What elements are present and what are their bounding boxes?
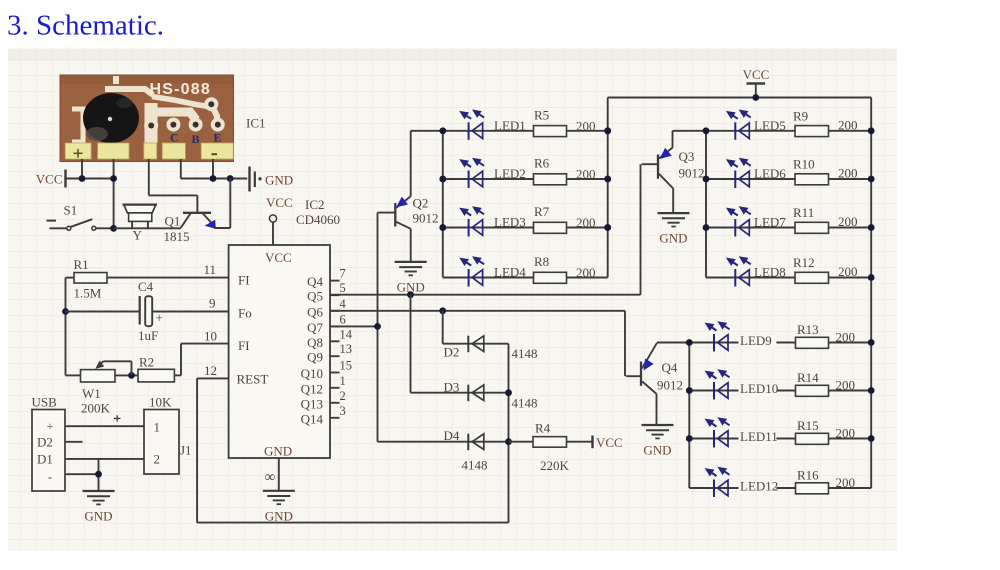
svg-text:4: 4 [340, 297, 347, 311]
svg-text:D2: D2 [37, 435, 53, 450]
svg-text:4148: 4148 [512, 346, 538, 361]
svg-text:LED5: LED5 [754, 118, 786, 133]
svg-text:3. Schematic.: 3. Schematic. [7, 10, 164, 42]
svg-text:1.5M: 1.5M [74, 286, 102, 301]
svg-text:GND: GND [265, 173, 293, 188]
svg-text:FI: FI [238, 338, 250, 353]
svg-text:Q3: Q3 [679, 149, 695, 164]
svg-text:9012: 9012 [679, 166, 705, 181]
svg-text:200: 200 [836, 378, 856, 393]
svg-text:10: 10 [204, 329, 217, 344]
svg-text:VCC: VCC [265, 250, 292, 265]
svg-text:R5: R5 [534, 107, 549, 122]
svg-text:LED7: LED7 [754, 215, 786, 230]
svg-text:11: 11 [203, 262, 216, 277]
svg-text:R2: R2 [139, 355, 154, 370]
svg-text:LED2: LED2 [494, 166, 526, 181]
svg-text:2: 2 [340, 389, 346, 403]
svg-text:R13: R13 [797, 322, 819, 337]
svg-text:200: 200 [576, 215, 596, 230]
svg-text:D1: D1 [37, 452, 53, 467]
svg-text:R16: R16 [797, 468, 819, 483]
svg-text:Q9: Q9 [307, 350, 323, 365]
svg-text:Q4: Q4 [662, 360, 678, 375]
svg-text:R6: R6 [534, 156, 550, 171]
svg-text:Q12: Q12 [301, 381, 323, 396]
svg-text:200: 200 [576, 118, 596, 133]
svg-text:9: 9 [209, 296, 216, 311]
svg-text:R10: R10 [793, 157, 815, 172]
svg-text:Q6: Q6 [307, 304, 323, 319]
svg-text:5: 5 [340, 281, 346, 295]
svg-text:Y: Y [133, 228, 143, 243]
svg-text:D3: D3 [444, 380, 460, 395]
svg-text:+: + [47, 419, 54, 433]
svg-text:IC2: IC2 [305, 197, 325, 212]
svg-text:Q5: Q5 [307, 289, 323, 304]
svg-text:∞: ∞ [265, 470, 276, 486]
svg-text:VCC: VCC [596, 435, 623, 450]
svg-text:12: 12 [204, 363, 217, 378]
svg-text:Q13: Q13 [301, 396, 323, 411]
svg-text:GND: GND [264, 444, 292, 459]
svg-text:Q10: Q10 [301, 366, 323, 381]
svg-text:Q1: Q1 [165, 214, 181, 229]
svg-text:-: - [48, 469, 52, 484]
svg-text:9012: 9012 [413, 211, 439, 226]
svg-text:14: 14 [340, 327, 353, 341]
svg-text:R12: R12 [793, 255, 815, 270]
svg-text:Q4: Q4 [307, 274, 323, 289]
svg-text:13: 13 [340, 342, 353, 356]
svg-text:1: 1 [154, 420, 161, 435]
svg-text:R14: R14 [797, 370, 819, 385]
svg-text:GND: GND [84, 509, 112, 524]
svg-text:1: 1 [340, 374, 346, 388]
svg-text:R15: R15 [797, 418, 819, 433]
svg-text:GND: GND [397, 279, 425, 294]
svg-text:D2: D2 [444, 345, 460, 360]
svg-text:1uF: 1uF [138, 328, 158, 343]
svg-text:10K: 10K [149, 395, 172, 410]
svg-text:Q8: Q8 [307, 335, 323, 350]
svg-text:200: 200 [838, 214, 858, 229]
svg-text:4148: 4148 [462, 458, 488, 473]
svg-text:200: 200 [836, 426, 856, 441]
svg-text:Q7: Q7 [307, 320, 323, 335]
svg-text:R8: R8 [534, 254, 549, 269]
svg-text:LED1: LED1 [494, 118, 526, 133]
svg-text:USB: USB [32, 395, 58, 410]
svg-text:LED4: LED4 [494, 265, 526, 280]
svg-text:GND: GND [643, 443, 671, 458]
svg-text:D4: D4 [444, 428, 460, 443]
svg-text:R4: R4 [535, 421, 551, 436]
svg-text:C4: C4 [138, 279, 154, 294]
svg-text:200: 200 [836, 330, 856, 345]
svg-text:GND: GND [659, 231, 687, 246]
svg-text:2: 2 [154, 452, 161, 467]
svg-text:200: 200 [576, 265, 596, 280]
svg-text:R1: R1 [74, 257, 89, 272]
svg-text:200: 200 [836, 475, 856, 490]
svg-text:+: + [156, 310, 163, 325]
svg-text:C: C [170, 131, 179, 145]
svg-text:FI: FI [238, 273, 250, 288]
svg-text:B: B [192, 132, 200, 146]
svg-text:GND: GND [265, 509, 293, 524]
svg-text:LED11: LED11 [740, 429, 778, 444]
svg-text:6: 6 [340, 312, 346, 326]
svg-text:200: 200 [838, 264, 858, 279]
svg-text:LED12: LED12 [740, 479, 778, 494]
svg-text:Q14: Q14 [301, 411, 324, 426]
svg-text:E: E [214, 131, 222, 145]
svg-text:200: 200 [838, 117, 858, 132]
svg-text:200: 200 [838, 166, 858, 181]
svg-text:S1: S1 [64, 203, 78, 218]
svg-text:R9: R9 [793, 108, 808, 123]
svg-text:VCC: VCC [743, 67, 770, 82]
svg-text:W1: W1 [82, 386, 101, 401]
svg-text:LED6: LED6 [754, 166, 786, 181]
svg-text:200K: 200K [81, 401, 111, 416]
svg-text:4148: 4148 [512, 396, 538, 411]
svg-text:7: 7 [340, 267, 346, 281]
svg-text:VCC: VCC [266, 195, 293, 210]
svg-text:J1: J1 [180, 443, 192, 458]
svg-text:Q2: Q2 [413, 196, 429, 211]
svg-text:9012: 9012 [657, 378, 683, 393]
svg-text:15: 15 [340, 359, 353, 373]
svg-text:IC1: IC1 [246, 116, 266, 131]
svg-text:200: 200 [576, 167, 596, 182]
svg-text:LED9: LED9 [740, 333, 772, 348]
svg-text:CD4060: CD4060 [296, 212, 340, 227]
svg-text:R11: R11 [793, 205, 814, 220]
svg-text:R7: R7 [534, 204, 550, 219]
svg-text:REST: REST [237, 372, 269, 387]
svg-text:LED8: LED8 [754, 265, 786, 280]
svg-text:LED10: LED10 [740, 381, 778, 396]
svg-text:HS-088: HS-088 [150, 81, 211, 98]
svg-text:3: 3 [340, 404, 346, 418]
svg-text:LED3: LED3 [494, 215, 526, 230]
svg-text:VCC: VCC [36, 172, 63, 187]
svg-text:Fo: Fo [238, 306, 252, 321]
svg-text:220K: 220K [540, 458, 570, 473]
svg-text:1815: 1815 [164, 229, 190, 244]
